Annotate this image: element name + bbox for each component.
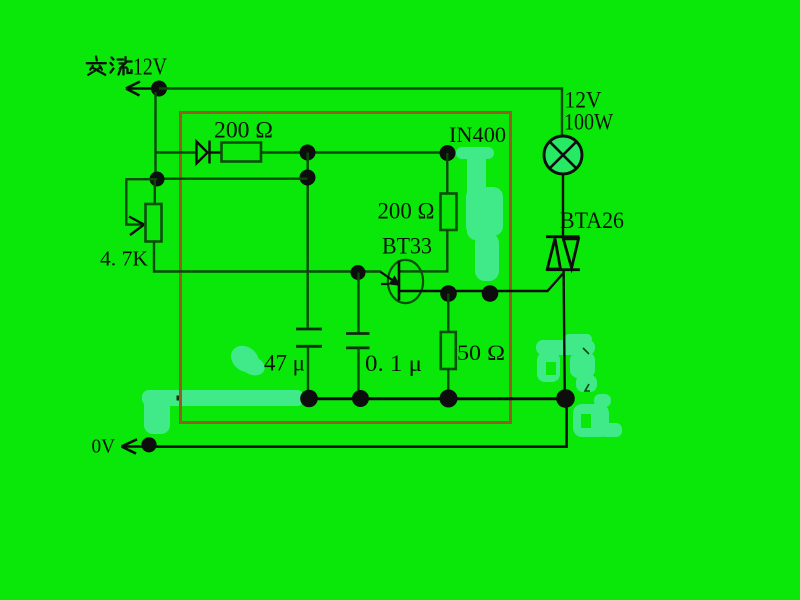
svg-text:BTA26: BTA26 xyxy=(560,208,624,233)
triac V1 BTA26 xyxy=(546,237,580,270)
svg-text:4. 7K: 4. 7K xyxy=(100,247,148,271)
wire: B1 row to triac gate xyxy=(399,274,563,292)
smudge: erased bottom-left wire band xyxy=(142,390,304,434)
wire: pot top lead xyxy=(154,179,156,204)
wire: R2 top lead xyxy=(446,153,448,193)
node: triac cathode junction xyxy=(556,389,575,408)
wire: into diode xyxy=(156,151,197,153)
resistor R2 xyxy=(441,194,457,231)
wire: vertical through node to C1 xyxy=(307,153,309,330)
node: IN400 top xyxy=(440,145,456,161)
wire: R1 to node xyxy=(262,151,448,153)
node: C2 bottom xyxy=(352,390,369,407)
node: wire crossing red box edge xyxy=(177,396,182,401)
svg-text:0. 1 μ: 0. 1 μ xyxy=(365,351,422,376)
svg-text:IN400: IN400 xyxy=(449,122,506,147)
wire: bottom bus xyxy=(309,397,566,400)
smudge: erased vertical squiggle inside box right side xyxy=(456,147,503,281)
smudge: erased character blob lower (right of box) xyxy=(573,394,622,437)
svg-text:12V: 12V xyxy=(133,55,168,81)
wire: pot wiper loop xyxy=(126,179,157,224)
wire: C1 bottom lead xyxy=(307,346,309,398)
diode D1 xyxy=(197,141,222,164)
lamp EL1 12V 100W xyxy=(544,136,582,174)
label AC 12V (Chinese jiao-liu) xyxy=(87,57,132,75)
wire: R3 bottom lead xyxy=(447,369,449,399)
wire: R3 top lead xyxy=(447,294,449,333)
svg-text:200 Ω: 200 Ω xyxy=(378,199,435,224)
svg-text:200 Ω: 200 Ω xyxy=(214,118,273,143)
capacitor C1 47u xyxy=(296,329,322,346)
transistor Q1 base bar xyxy=(398,261,401,301)
pot wiper arrow xyxy=(129,217,144,236)
terminal arrow 0V xyxy=(122,439,146,453)
smudge: blob near 47u label xyxy=(226,340,268,378)
wire: R2 bottom to B2 xyxy=(399,230,447,271)
terminal arrow AC input xyxy=(126,82,159,96)
svg-text:0V: 0V xyxy=(92,436,116,458)
svg-text:47 μ: 47 μ xyxy=(264,351,305,376)
transistor Q1 BT33 circle xyxy=(388,260,423,303)
svg-text:100W: 100W xyxy=(564,110,613,135)
potentiometer RP 4.7K xyxy=(146,204,162,242)
resistor R1 xyxy=(222,143,262,162)
node: pot top xyxy=(150,172,165,187)
smudge dark tick remains xyxy=(583,348,590,391)
node: 0V terminal xyxy=(141,437,156,452)
svg-text:BT33: BT33 xyxy=(382,234,432,259)
capacitor C2 0.1u xyxy=(346,334,370,348)
smudge hole upper xyxy=(546,362,556,375)
smudge: erased character blob upper (right of box) xyxy=(536,334,597,392)
wire: top bus to lamp xyxy=(159,89,562,137)
wire: C2 bottom lead xyxy=(357,348,359,399)
node: pot top row right xyxy=(300,170,316,186)
node: gate wire xyxy=(482,285,499,302)
transistor Q1 emitter arrow xyxy=(381,272,399,285)
svg-text:50 Ω: 50 Ω xyxy=(457,340,505,365)
wire: left vertical from AC node xyxy=(154,92,156,179)
wire: triac anode down to junction xyxy=(564,271,565,399)
resistor R3 50 ohm xyxy=(441,332,456,369)
node: R1 output xyxy=(300,145,316,161)
node: B1 / R3 top xyxy=(440,285,457,302)
wire: pot row horizontal xyxy=(157,177,308,179)
node: R3 bottom xyxy=(440,390,458,408)
wire: junction down and 0V rail xyxy=(149,399,567,447)
red enclosure box xyxy=(181,113,511,423)
node: AC input junction xyxy=(151,81,167,97)
node: C1 bottom xyxy=(300,390,318,408)
wire: lamp to triac xyxy=(562,174,564,237)
wire: C2 top lead xyxy=(357,273,359,334)
wire: pot bottom lead and emitter row xyxy=(154,242,381,272)
smudge hole lower xyxy=(581,414,591,428)
node: emitter row / C2 top xyxy=(351,265,366,280)
